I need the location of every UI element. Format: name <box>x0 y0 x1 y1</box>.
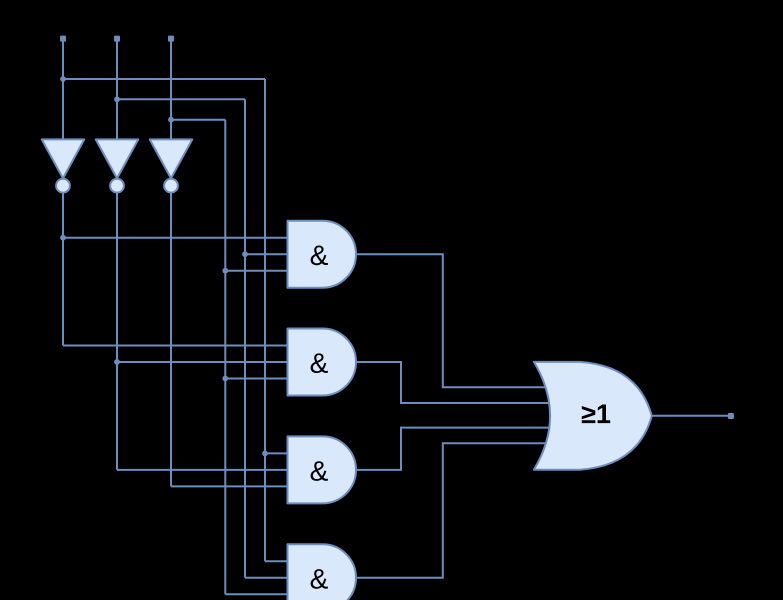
inverter NOT2 bubble <box>110 179 124 193</box>
node A input terminal <box>60 36 66 42</box>
AND gate AND3 body <box>288 436 357 503</box>
wire AND2 output to OR1 input2 <box>356 362 552 403</box>
wire net NOT-A vertical from NOT1 output to AND2 input1 corner <box>62 192 64 346</box>
AND gate AND1 body <box>288 221 357 288</box>
junction net A at AND3 input1 <box>262 451 268 457</box>
node B input terminal <box>114 36 120 42</box>
wire OR1 output to output terminal <box>652 415 728 417</box>
wire net B branch to AND4 input2 <box>245 577 292 579</box>
inverter NOT3 triangle <box>150 139 193 178</box>
wire net B horizontal y=99.3 to vertical x=245 <box>117 98 245 100</box>
node C input terminal <box>168 36 174 42</box>
inverter NOT1 bubble <box>56 179 70 193</box>
junction net C at AND2 input3 <box>222 376 228 382</box>
wire net NOT-C vertical from NOT3 output to AND3 input3 corner <box>170 192 172 486</box>
wire net A branch to AND3 input1 <box>265 452 292 454</box>
inverter NOT1 triangle <box>42 139 85 178</box>
junction net A y=79 <box>60 76 66 82</box>
wire net B branch to AND1 input2 <box>245 253 292 255</box>
wire net C branch to AND1 input3 <box>225 270 292 272</box>
wire net C branch to AND2 input3 <box>225 378 292 380</box>
AND gate AND1 label & <box>311 246 328 266</box>
wire net A branch to AND4 input1 <box>265 560 292 562</box>
AND gate AND4 body <box>288 544 357 600</box>
AND gate AND2 body <box>288 329 357 396</box>
inverter NOT2 triangle <box>96 139 139 178</box>
junction net B y=99.3 <box>114 96 120 102</box>
wire net A vertical from terminal to inverter NOT1 input <box>62 39 64 141</box>
wire net A horizontal y=79 to vertical x=265 <box>63 78 265 80</box>
wire AND4 output to OR1 input4 <box>356 443 552 578</box>
wire AND3 output to OR1 input3 <box>356 428 552 470</box>
wire net NOT-B branch to AND2 input2 <box>117 361 292 363</box>
OR gate OR1 body <box>534 362 652 470</box>
wire net NOT-B vertical from NOT2 output to AND3 input2 corner <box>116 192 118 470</box>
wire net NOT-B branch to AND3 input2 <box>117 469 292 471</box>
wire net C branch to AND4 input3 <box>225 593 292 595</box>
junction net C y=119.7 <box>168 117 174 123</box>
wire net B vertical from terminal to inverter NOT2 input <box>116 39 118 141</box>
wire net NOT-A branch to AND2 input1 <box>63 345 292 347</box>
AND gate AND2 label & <box>311 353 328 373</box>
wire net C vertical from terminal to inverter NOT3 input <box>170 39 172 141</box>
AND gate AND4 label & <box>311 569 328 589</box>
junction net C at AND1 input3 <box>222 268 228 274</box>
wire net NOT-C branch to AND3 input3 <box>171 485 292 487</box>
output terminal node Y <box>728 413 734 419</box>
wire AND1 output to OR1 input1 <box>356 254 552 387</box>
junction net NOT-A at AND1 input1 <box>60 235 66 241</box>
inverter NOT3 bubble <box>164 179 178 193</box>
wire net B vertical x=245 down to AND4 input2 corner <box>244 99 246 578</box>
OR gate OR1 label >=1 <box>582 405 610 424</box>
wire net NOT-A branch to AND1 input1 <box>63 237 292 239</box>
wire net A vertical x=265 down to AND4 input1 corner <box>264 79 266 561</box>
wire net C horizontal y=119.7 to vertical x=225.3 <box>171 119 225 121</box>
junction net NOT-B at AND2 input2 <box>114 359 120 365</box>
wire net C vertical x=225.3 down to AND4 input3 corner <box>224 120 226 595</box>
AND gate AND3 label & <box>311 461 328 481</box>
junction net B at AND1 input2 <box>242 251 248 257</box>
